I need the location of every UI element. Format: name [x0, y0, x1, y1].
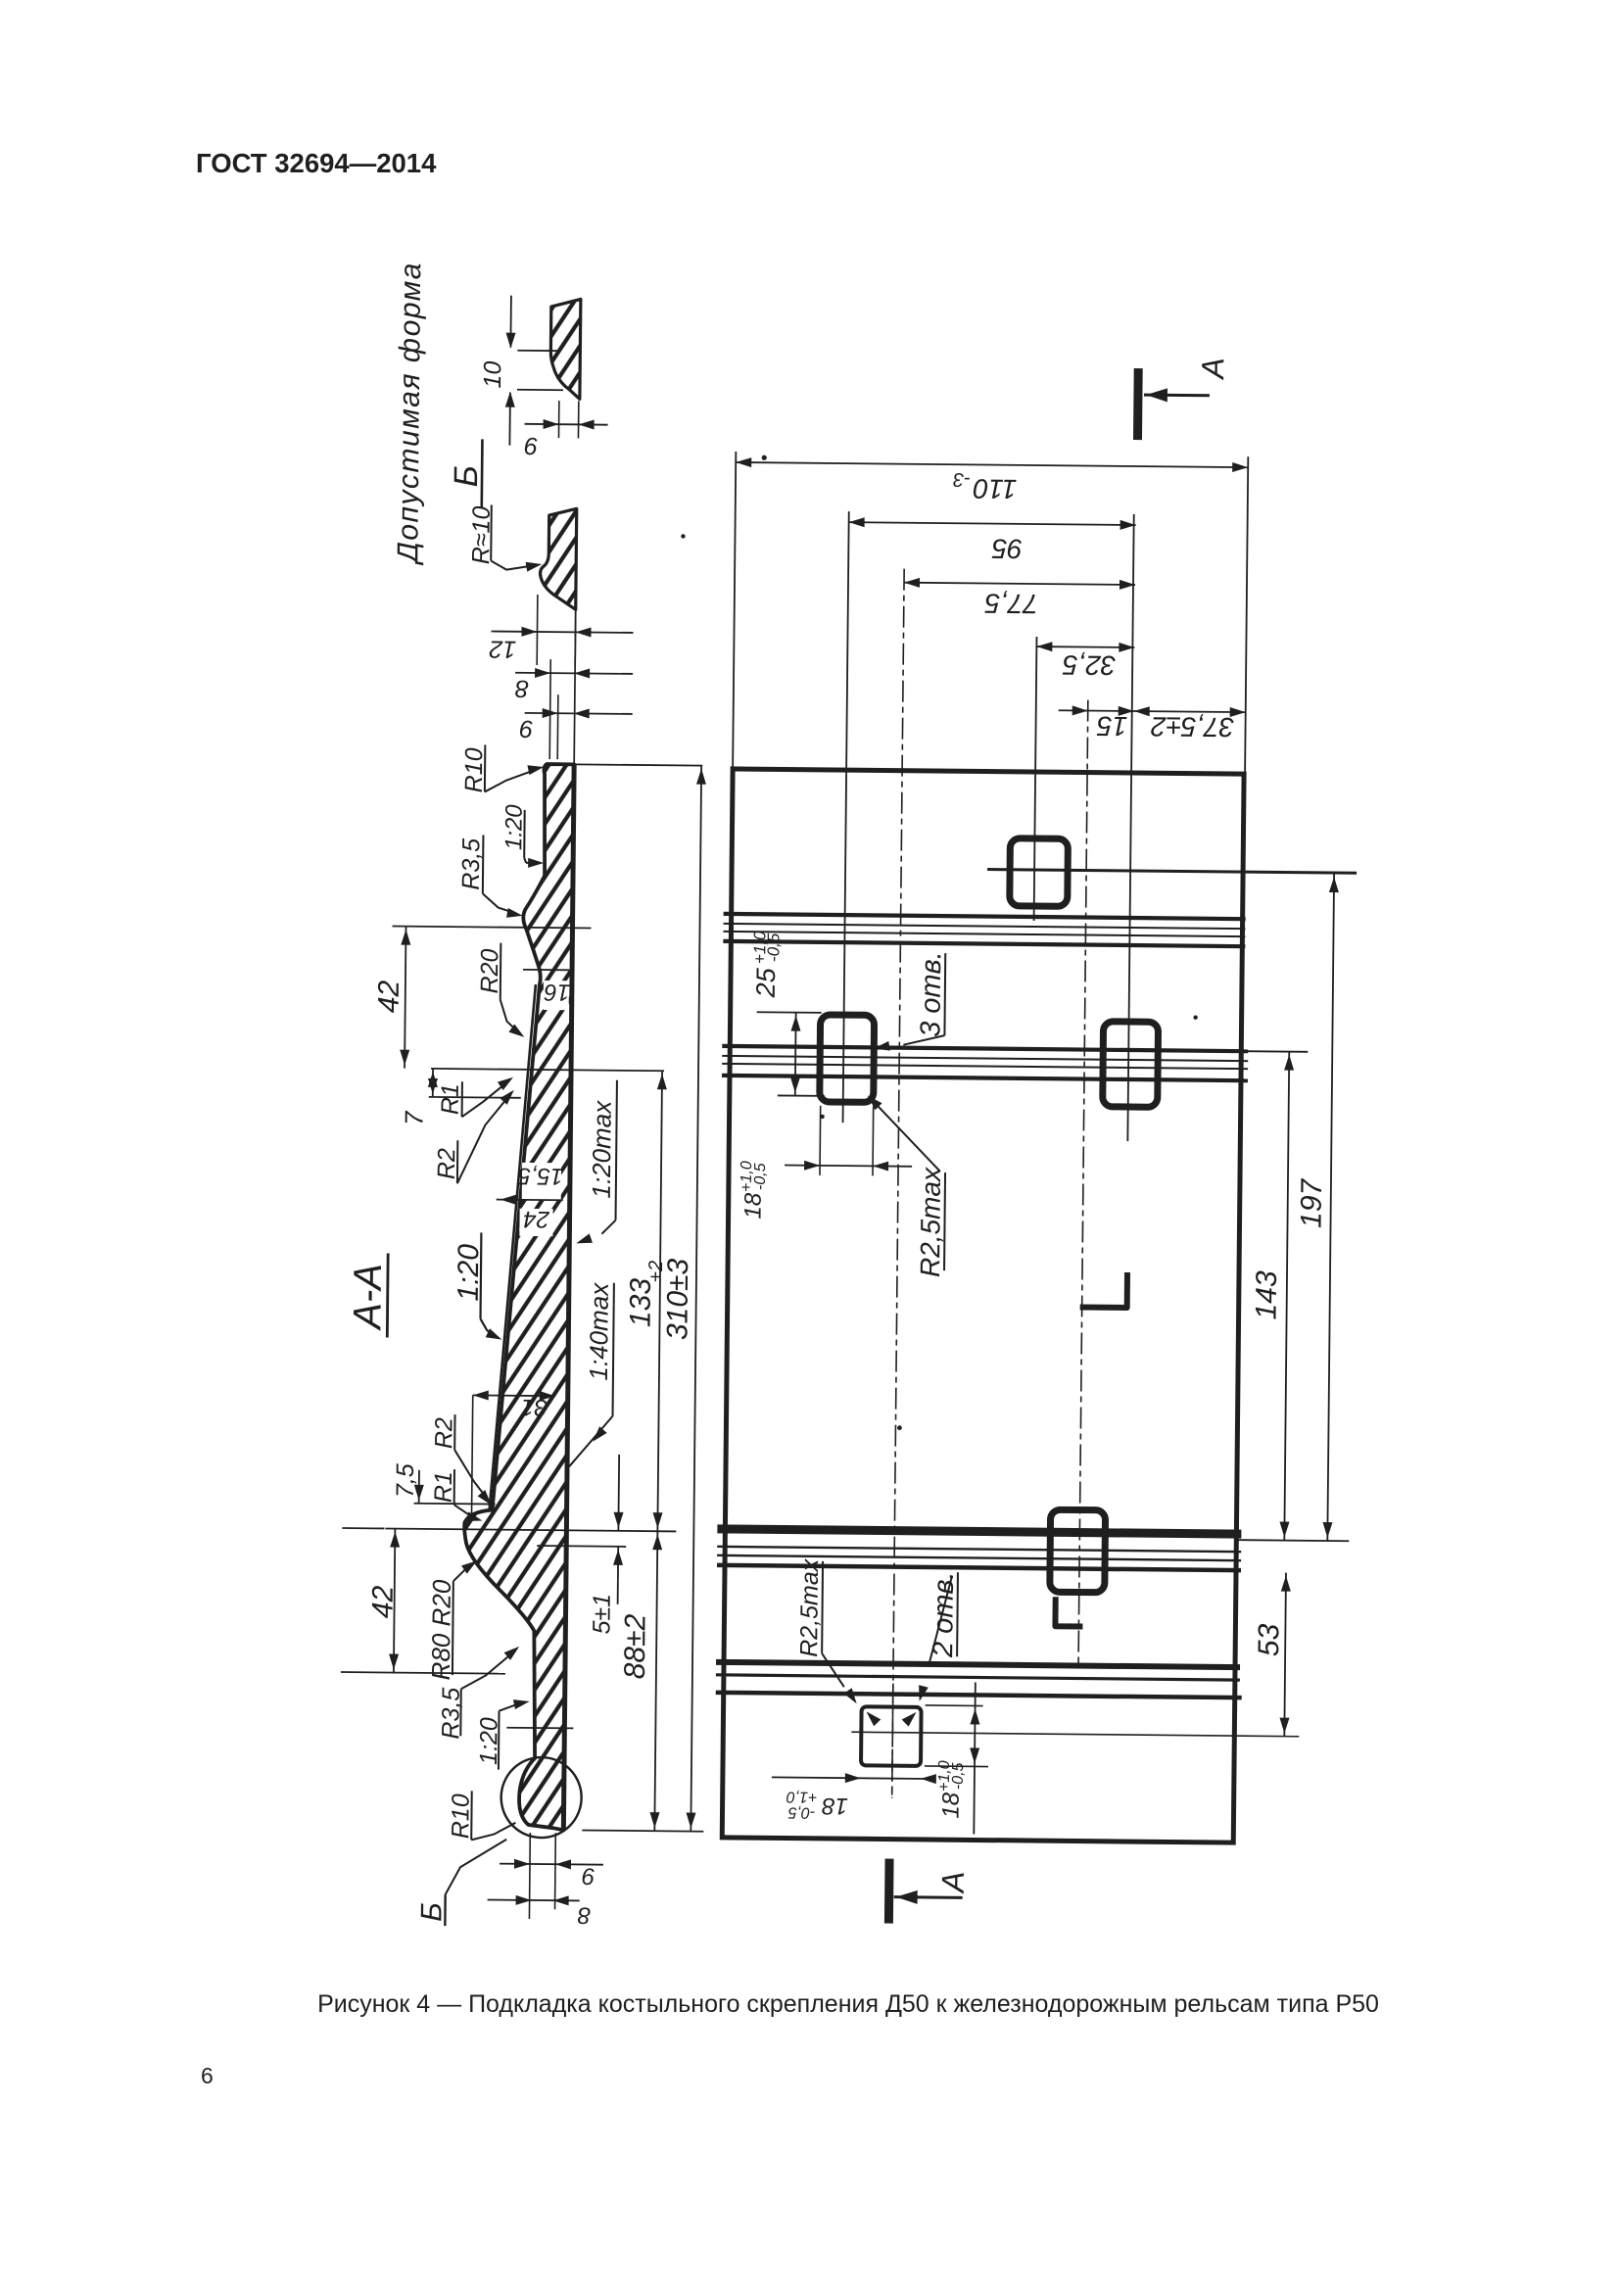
svg-text:5±1: 5±1 — [588, 1594, 615, 1635]
svg-text:Рисунок 4 — Подкладка костыльн: Рисунок 4 — Подкладка костыльного скрепл… — [317, 1990, 1379, 2018]
extension line x1266 (right edge, above) — [1245, 456, 1248, 774]
rail foot band 1 — [724, 914, 1246, 919]
svg-text:18: 18 — [937, 1792, 964, 1819]
rail foot band 4 — [716, 1662, 1240, 1667]
svg-text:10: 10 — [479, 360, 506, 388]
dimension 31 — [473, 1394, 555, 1397]
extension line x743 (left edge, above) — [733, 452, 736, 769]
tick at y1568 (143/197 bottom) — [1237, 1540, 1349, 1541]
svg-text:88±2: 88±2 — [619, 1613, 652, 1679]
plan view outline rectangle — [722, 769, 1244, 1842]
svg-text:37,5±2: 37,5±2 — [1150, 711, 1234, 742]
centerline through C1 extended right — [987, 870, 1357, 874]
dimension 88±2 — [654, 1531, 657, 1831]
hole horizontal centerline to 53-dim — [851, 1732, 1299, 1737]
hole vertical centerline — [892, 1684, 893, 1795]
svg-text:42: 42 — [373, 980, 405, 1013]
dimensions 15 and 37,5±2 — [1059, 710, 1246, 712]
svg-text:8: 8 — [515, 675, 529, 702]
svg-text:7: 7 — [399, 1110, 428, 1125]
centerline through clamp C4 (dash-dot) — [1078, 700, 1088, 1668]
svg-text:12: 12 — [489, 635, 516, 662]
dimension 197 — [1327, 874, 1334, 1541]
dimension 7 with tick — [432, 1069, 434, 1097]
svg-text:-0,5: -0,5 — [752, 1163, 769, 1190]
dimension 110-3 — [736, 462, 1248, 467]
dimension 8 (end of plate) — [549, 659, 550, 759]
svg-text:31: 31 — [521, 1394, 548, 1420]
base extension line above plate top — [574, 609, 576, 764]
svg-text:A: A — [935, 1871, 971, 1894]
dimension 42 (upper) — [393, 927, 592, 929]
svg-text:143: 143 — [1251, 1270, 1283, 1320]
svg-text:R2,5max: R2,5max — [915, 1167, 946, 1277]
svg-text:9: 9 — [519, 715, 533, 742]
svg-text:+1,0: +1,0 — [786, 1789, 818, 1805]
svg-text:8: 8 — [577, 1901, 591, 1928]
line through clamp C2 / ext of 95 — [843, 511, 849, 1123]
dimension 18 +1,0/-0,5 below C2 — [819, 1106, 822, 1175]
tick at y1095 (42 bottom / 133 top) — [431, 1069, 664, 1071]
tie plate cross-section profile with hatching — [461, 763, 574, 1830]
svg-text:R2,5max: R2,5max — [795, 1557, 824, 1657]
corner mark (upper) — [1080, 1272, 1127, 1308]
tick at seat start y993 — [523, 969, 569, 971]
spike hole C3 — [1103, 1022, 1159, 1108]
section mark A (top) — [1133, 368, 1143, 440]
svg-text:15,5: 15,5 — [517, 1163, 564, 1189]
detail Б piece 2 outline + hatch (R~10 toe) — [540, 508, 577, 609]
svg-text:R3,5: R3,5 — [457, 838, 486, 890]
dimension 18 vertical right of hole — [926, 1704, 983, 1707]
dimension 143 — [1284, 1052, 1289, 1541]
svg-text:110: 110 — [973, 473, 1017, 503]
dimension 310±3 — [691, 766, 701, 1832]
detail Б piece 2 dimension 12 — [536, 595, 539, 665]
svg-text:R1: R1 — [437, 1083, 464, 1115]
tick on lower taper y1767 — [506, 1727, 573, 1730]
svg-text:197: 197 — [1295, 1177, 1328, 1228]
longitudinal centerline (dash-dot) — [892, 569, 904, 1798]
spike hole C2 — [820, 1015, 875, 1103]
svg-text:ГОСТ 32694—2014: ГОСТ 32694—2014 — [196, 148, 437, 178]
line through clamp C1 / ext of 32,5 — [1034, 637, 1037, 921]
svg-text:1:20max: 1:20max — [587, 1100, 617, 1199]
bottom end dimension 9 — [528, 1833, 531, 1919]
rail foot band 3 — [717, 1529, 1241, 1534]
svg-text:7,5: 7,5 — [392, 1463, 419, 1498]
dimension 53 — [1284, 1573, 1286, 1737]
svg-text:42: 42 — [366, 1585, 399, 1618]
svg-text:Допустимая форма: Допустимая форма — [392, 262, 427, 566]
dimension label 15,5 on white box — [522, 1163, 561, 1200]
dimension 25 +1,0/-0,5 at C2 — [757, 1011, 822, 1014]
svg-text:-0,5: -0,5 — [950, 1762, 967, 1790]
svg-text:53: 53 — [1253, 1623, 1285, 1656]
bottom end dimension 8 — [488, 1899, 580, 1902]
dimension label 16 (seat depth) — [544, 981, 569, 1010]
svg-text:-3: -3 — [953, 468, 971, 490]
scan speckles — [681, 534, 685, 538]
svg-text:-0,5: -0,5 — [788, 1804, 816, 1821]
dimension 7,5 (rib 2 crest) — [414, 1503, 496, 1506]
section mark A (bottom) — [884, 1859, 894, 1924]
dimension 95 — [849, 522, 1136, 525]
tick at rib2 crest y1565 — [385, 1528, 676, 1531]
svg-text:А-А: А-А — [346, 1264, 390, 1331]
dimension 18 horizontal below hole — [772, 1777, 928, 1779]
bottom extension tick (plate bottom end) — [582, 1830, 703, 1831]
svg-text:310±3: 310±3 — [661, 1258, 694, 1340]
spike hole C4 — [1050, 1509, 1106, 1593]
svg-text:-0,5: -0,5 — [764, 933, 783, 962]
dimension 42 (lower) — [342, 1527, 384, 1529]
spike hole C1 — [1010, 838, 1069, 907]
svg-text:25: 25 — [751, 967, 781, 998]
top extension tick (plate top end) — [553, 764, 702, 766]
rail foot band 2 — [722, 1046, 1248, 1051]
svg-text:A: A — [1195, 358, 1230, 381]
dimension 32,5 — [1036, 646, 1134, 648]
svg-text:24: 24 — [523, 1206, 550, 1232]
svg-text:133: 133 — [624, 1278, 656, 1328]
svg-text:32,5: 32,5 — [1062, 649, 1116, 681]
spike hole H5 (bottom, 2 holes) — [861, 1706, 922, 1766]
svg-text:16: 16 — [544, 979, 571, 1005]
dimension 77,5 — [904, 583, 1135, 585]
dimension 9 (end of plate) — [556, 694, 559, 759]
svg-text:6: 6 — [201, 2063, 214, 2088]
dimension 5±1 — [537, 1545, 626, 1548]
svg-text:1:40max: 1:40max — [584, 1282, 614, 1381]
svg-text:2 отв.: 2 отв. — [928, 1571, 960, 1658]
line through clamp C3 / common right ext — [1127, 514, 1133, 1141]
svg-text:18: 18 — [740, 1192, 767, 1220]
detail Б piece 1 dimension 9 — [557, 401, 559, 438]
svg-text:Б: Б — [448, 465, 485, 488]
dimension 133+2 — [657, 1071, 662, 1531]
svg-text:9: 9 — [582, 1862, 596, 1889]
rail seat surface line (1:20) — [490, 984, 536, 1510]
svg-text:77,5: 77,5 — [984, 589, 1038, 620]
svg-text:3 отв.: 3 отв. — [915, 951, 947, 1037]
dimension label 24 on white box — [519, 1209, 552, 1236]
svg-text:9: 9 — [524, 432, 538, 459]
detail Б piece 1 outline + hatch — [550, 299, 581, 399]
svg-text:18: 18 — [821, 1793, 848, 1819]
detail Б piece 1 dimension 10 — [517, 350, 559, 352]
detail callout circle Б (toe of plate) — [500, 1757, 582, 1839]
svg-text:Б: Б — [415, 1902, 448, 1922]
svg-text:95: 95 — [991, 534, 1023, 564]
tick at y1069 (143 top) — [1242, 1050, 1308, 1053]
corner mark (lower) — [1055, 1597, 1082, 1626]
svg-text:15: 15 — [1096, 711, 1127, 741]
